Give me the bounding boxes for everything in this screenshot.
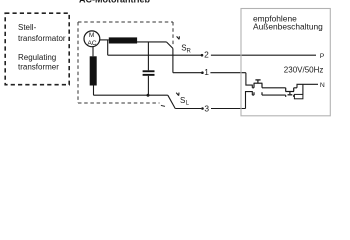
svg-text:R: R (187, 48, 192, 54)
svg-text:Außenbeschaltung: Außenbeschaltung (253, 22, 323, 32)
svg-text:M: M (89, 32, 95, 39)
svg-text:transformator: transformator (18, 34, 66, 43)
svg-text:N: N (320, 82, 325, 89)
svg-text:transformer: transformer (18, 63, 59, 72)
svg-text:1: 1 (204, 67, 209, 77)
svg-text:AC: AC (87, 40, 96, 47)
svg-text:2: 2 (204, 50, 209, 60)
svg-text:P: P (320, 53, 325, 60)
svg-text:AC-Motorantrieb: AC-Motorantrieb (79, 0, 150, 4)
svg-text:3: 3 (204, 103, 209, 113)
svg-text:Regulating: Regulating (18, 53, 56, 62)
svg-text:S: S (180, 96, 185, 105)
svg-text:230V/50Hz: 230V/50Hz (284, 66, 324, 75)
svg-text:L: L (186, 101, 190, 107)
svg-text:Stell-: Stell- (18, 23, 37, 32)
